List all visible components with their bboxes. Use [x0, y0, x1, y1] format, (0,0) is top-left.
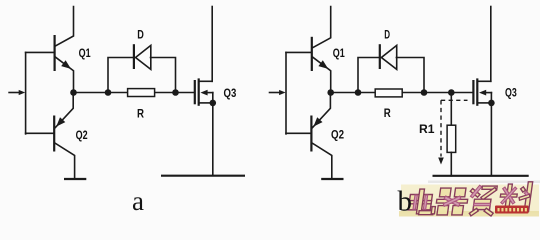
svg-text:D: D: [384, 28, 390, 42]
svg-text:R: R: [137, 106, 144, 120]
svg-text:a: a: [132, 186, 144, 216]
svg-text:R: R: [384, 106, 391, 120]
svg-text:Q2: Q2: [331, 128, 344, 142]
svg-text:Q1: Q1: [79, 46, 91, 60]
svg-text:Q3: Q3: [505, 86, 517, 100]
svg-text:Q3: Q3: [224, 86, 237, 100]
svg-text:D: D: [137, 28, 144, 42]
svg-text:b: b: [398, 186, 413, 218]
svg-text:Q1: Q1: [333, 46, 345, 60]
svg-text:Q2: Q2: [76, 128, 88, 142]
svg-text:R1: R1: [419, 122, 435, 136]
